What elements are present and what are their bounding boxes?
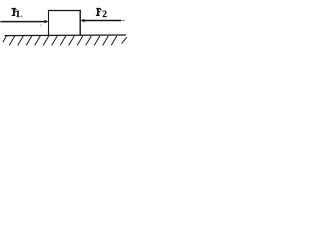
hatch 11	[94, 36, 100, 46]
force arrow F2 head	[81, 19, 85, 23]
label F1: letter F drawn as paths	[11, 8, 16, 16]
block M: top edge	[48, 10, 81, 12]
hatch 5	[43, 36, 49, 46]
hatch 6	[52, 36, 58, 46]
ground hatching	[3, 36, 127, 46]
speck after F1	[21, 16, 22, 17]
svg-text:1: 1	[16, 10, 21, 20]
hatch 2	[18, 36, 24, 46]
hatch 10	[86, 36, 92, 46]
hatch 3	[26, 36, 32, 46]
block M: left edge	[48, 10, 50, 36]
hatch 8	[69, 36, 75, 46]
block M: right edge	[79, 10, 81, 36]
hatch 13	[111, 36, 117, 46]
hatch fragment far left	[3, 36, 7, 42]
hatch 1	[9, 36, 15, 46]
hatch 12	[103, 36, 109, 46]
label F2: letter F drawn as paths	[96, 8, 102, 16]
hatch 4	[35, 36, 41, 46]
hatch 14 (last, detached lower)	[122, 37, 127, 43]
hatch 7	[60, 36, 66, 46]
force arrow F1 shaft	[0, 21, 44, 23]
force arrow F1 head	[45, 20, 49, 24]
faint speck left of block	[40, 25, 41, 26]
background	[0, 0, 129, 49]
hatch 9	[77, 36, 83, 46]
svg-text:2: 2	[102, 10, 107, 20]
force arrow F2 shaft	[84, 20, 121, 22]
ground line	[5, 34, 127, 37]
